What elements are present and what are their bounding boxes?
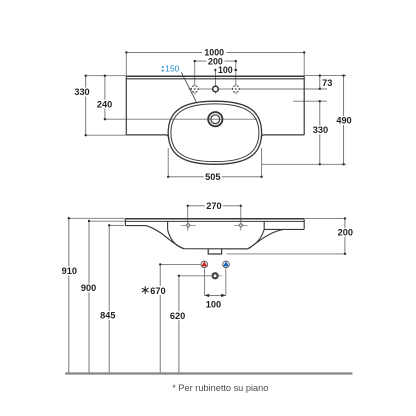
svg-text:100: 100: [218, 65, 233, 75]
svg-text:490: 490: [336, 116, 351, 126]
svg-text:240: 240: [97, 99, 112, 109]
svg-text:270: 270: [206, 201, 221, 211]
svg-text:200: 200: [338, 228, 353, 238]
svg-text:330: 330: [74, 87, 89, 97]
svg-text:330: 330: [313, 125, 328, 135]
svg-text:505: 505: [205, 172, 220, 182]
svg-text:620: 620: [170, 311, 185, 321]
svg-text:900: 900: [81, 283, 96, 293]
svg-text:100: 100: [206, 300, 221, 310]
svg-text:670: 670: [150, 286, 165, 296]
svg-text:* Per rubinetto su piano: * Per rubinetto su piano: [172, 383, 268, 393]
svg-text:73: 73: [322, 78, 332, 88]
svg-text:910: 910: [62, 266, 77, 276]
svg-text:150: 150: [165, 64, 180, 73]
svg-text:845: 845: [100, 311, 115, 321]
